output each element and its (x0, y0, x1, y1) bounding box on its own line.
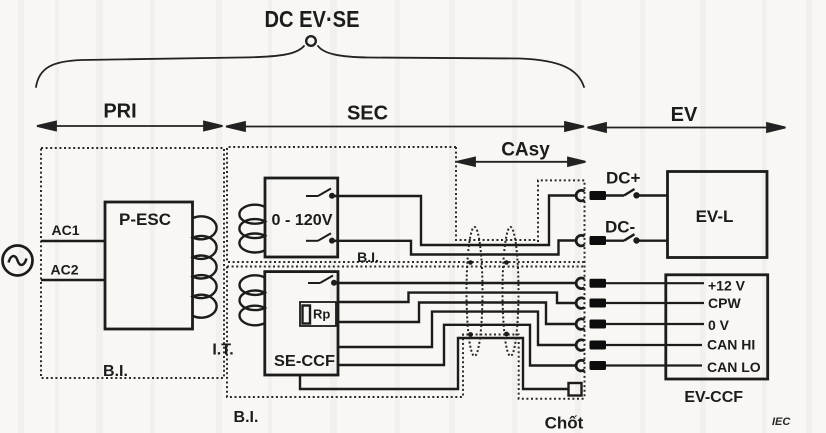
svg-text:CPW: CPW (708, 295, 741, 311)
wire DC minus from 0-120V to connector (334, 241, 577, 255)
svg-text:SEC: SEC (347, 103, 388, 125)
wire CAN LO (338, 325, 577, 366)
svg-text:SE-CCF: SE-CCF (274, 353, 335, 370)
block EV-CCF (666, 275, 768, 379)
svg-text:DC+: DC+ (606, 169, 641, 188)
connector pins (590, 191, 607, 370)
wire AC1 (41, 240, 105, 242)
svg-text:IEC: IEC (772, 416, 791, 428)
switch S3 in SE-CCF (308, 276, 336, 285)
inductor primary winding (193, 216, 217, 317)
wire DC plus from 0-120V to connector (334, 196, 577, 246)
inductor secondary winding 2 (240, 275, 265, 325)
arrow CAsy (470, 161, 573, 163)
inductor secondary winding 1 (239, 205, 265, 253)
junction dots on cable (468, 260, 509, 337)
resistor Rp (300, 302, 336, 326)
svg-text:PRI: PRI (103, 101, 136, 123)
switch S2 in 0-120V (306, 233, 334, 242)
signal wires to EV-CCF (606, 283, 704, 365)
svg-text:0 V: 0 V (708, 317, 730, 333)
source G1 AC supply (3, 246, 33, 276)
svg-text:DC EV·SE: DC EV·SE (265, 6, 360, 32)
svg-text:P-ESC: P-ESC (119, 210, 171, 229)
svg-text:Rp: Rp (313, 307, 330, 322)
svg-text:+12 V: +12 V (708, 278, 746, 294)
wire AC2 (41, 279, 105, 281)
block SE-CCF (265, 272, 338, 375)
wire and switch DC- to EV-L (606, 234, 668, 242)
svg-text:CAN HI: CAN HI (707, 337, 755, 353)
block EV-L (668, 172, 768, 258)
wire CAN HI (338, 312, 577, 347)
svg-text:B.I.: B.I. (103, 363, 128, 380)
svg-text:EV-CCF: EV-CCF (684, 389, 743, 406)
arrow SEC (240, 126, 570, 128)
svg-text:CAsy: CAsy (501, 140, 550, 161)
dashed box connector Chot (538, 180, 585, 398)
wire latch (300, 338, 569, 389)
svg-text:B.I.: B.I. (357, 249, 379, 265)
svg-text:I.T.: I.T. (212, 342, 233, 359)
svg-text:DC-: DC- (605, 218, 635, 237)
arrow EV (602, 127, 772, 129)
arrow PRI (52, 125, 208, 127)
connector contacts C shapes (576, 190, 584, 371)
dashed box B.I. secondary lower (227, 267, 585, 399)
svg-text:EV: EV (671, 104, 698, 126)
cable core ellipse 1 (467, 227, 483, 356)
switch S1 in 0-120V (306, 189, 334, 198)
svg-text:Chốt: Chốt (545, 414, 584, 433)
block 0-120V (265, 178, 338, 257)
wire CPW (338, 293, 577, 303)
dashed box B.I. secondary upper (227, 147, 585, 262)
cable core ellipse 2 (503, 227, 519, 356)
latch square (569, 383, 582, 396)
wire 0V (338, 303, 577, 325)
svg-text:B.I.: B.I. (234, 409, 259, 426)
svg-text:EV-L: EV-L (696, 207, 734, 226)
block P-ESC (105, 202, 193, 329)
svg-text:0 - 120V: 0 - 120V (272, 212, 333, 229)
wire and switch DC+ to EV-L (606, 189, 668, 197)
svg-text:CAN LO: CAN LO (707, 359, 761, 375)
svg-text:AC2: AC2 (51, 262, 79, 278)
svg-text:AC1: AC1 (52, 222, 80, 238)
wire +12V (336, 282, 577, 284)
dashed box B.I. primary (41, 148, 224, 378)
brace DC EV SE (36, 46, 304, 87)
